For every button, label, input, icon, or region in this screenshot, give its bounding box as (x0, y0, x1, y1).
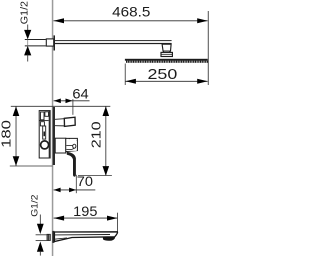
dimension 180 line (15, 106, 18, 166)
handle head box (66, 138, 78, 151)
handle head fill (66, 139, 76, 151)
svg-text:210: 210 (88, 121, 103, 148)
mixer top extension line (11, 105, 111, 107)
dimension 210 line (104, 106, 107, 175)
dimension 180 bottom arrow (13, 156, 20, 166)
dimension 70 extension line (75, 175, 78, 193)
handle base box (55, 138, 66, 153)
dimension 250 right arrow (197, 79, 208, 84)
spout inner line 1 (55, 234, 111, 236)
G1/2 bottom down arrow (37, 224, 44, 234)
handle inner line upper (66, 145, 72, 147)
dimension 70 line (54, 189, 96, 191)
G1/2 bottom extension line upper (36, 234, 47, 236)
shower head connector neck (164, 51, 170, 52)
svg-text:195: 195 (73, 204, 97, 220)
mixer valve inner divider (39, 120, 49, 122)
handle wedge upper line (72, 145, 76, 147)
dimension 250 left arrow (125, 79, 135, 84)
svg-text:70: 70 (77, 173, 93, 189)
svg-text:G1/2: G1/2 (20, 1, 31, 24)
svg-text:G1/2: G1/2 (29, 195, 39, 217)
wall line (52, 0, 54, 256)
spout inner line 2 (55, 238, 68, 239)
dimension 70 left arrow (54, 188, 61, 193)
dimension 210 bottom arrow (103, 166, 110, 176)
spout body (54, 232, 117, 242)
G1/2 top extension line lower (25, 45, 46, 47)
diverter stub top line (55, 118, 65, 121)
dimension 195 left arrow (54, 216, 65, 221)
mixer escutcheon bar (53, 107, 55, 165)
dimension 250 line (125, 80, 207, 82)
shower arm tube top line (55, 39, 172, 41)
lever bottom extension line (78, 175, 112, 177)
G1/2 bottom extension line lower (36, 240, 47, 242)
shower head plate nozzle teeth (126, 61, 208, 63)
dimension 468.5 line (54, 20, 208, 22)
spout supply nipple (47, 234, 51, 241)
G1/2 bottom dim line upper (39, 215, 42, 225)
dimension 468.5 left arrow (54, 18, 65, 23)
dimension 195 right arrow (107, 216, 118, 221)
dimension 64 line (54, 100, 90, 102)
spout outlet (103, 237, 115, 241)
mixer valve concealed box (39, 111, 50, 158)
shower arm tube bottom line (55, 43, 172, 45)
G1/2 top dim line lower (26, 55, 29, 62)
G1/2 top dim line upper (26, 25, 29, 34)
mixer valve top left slot (41, 112, 45, 120)
mixer valve right wall bar (49, 110, 51, 158)
shower head connector base mid line (161, 53, 172, 55)
shower head plate top band (125, 59, 208, 61)
dimension 195 right extension line (116, 213, 119, 233)
mixer valve top small rect (45, 112, 49, 117)
spout wall flange (52, 231, 54, 243)
dimension 64 left arrow (54, 99, 61, 104)
shower head connector upper box (162, 44, 171, 51)
dimension 250 left extension line (124, 64, 127, 86)
dimension 195 line (54, 217, 118, 219)
handle lever arm (67, 152, 76, 177)
mixer bottom extension line (10, 165, 53, 167)
svg-text:468.5: 468.5 (112, 4, 150, 20)
svg-text:64: 64 (72, 86, 89, 101)
dimension 180 top arrow (13, 106, 20, 116)
handle wedge lower line (72, 147, 76, 149)
dimension 210 top arrow (103, 106, 110, 116)
diverter stub bottom line (55, 125, 65, 127)
dimension 468.5 right arrow (197, 18, 208, 23)
shower arm tube fill (55, 41, 172, 43)
G1/2 top up arrow (24, 46, 31, 56)
svg-text:250: 250 (148, 67, 178, 83)
dimension 64 extension line (72, 99, 75, 115)
shower arm wall flange square (46, 39, 53, 46)
right extension line (207, 11, 210, 85)
handle inner line lower (66, 148, 72, 150)
G1/2 bottom up arrow (37, 242, 44, 252)
handle ellipse detail (73, 144, 76, 148)
G1/2 top extension line upper (25, 39, 46, 41)
dimension 64 right arrow (66, 99, 73, 104)
svg-text:180: 180 (0, 120, 13, 148)
G1/2 top dim line middle (26, 40, 29, 46)
mixer valve small box (40, 122, 44, 126)
mixer cartridge circle (41, 141, 49, 149)
spout nipple thread slit 2 (48, 235, 51, 241)
dimension 70 right arrow (69, 188, 76, 193)
spout nipple thread slit 1 (47, 235, 50, 241)
mixer valve stem slot (43, 126, 46, 139)
G1/2 top down arrow (24, 30, 31, 40)
mixer valve stem core (44, 132, 46, 137)
G1/2 bottom dim line lower (39, 251, 42, 255)
shower head connector base (161, 52, 172, 56)
diverter box (64, 117, 75, 126)
shower arm wall plate bar (54, 35, 56, 50)
